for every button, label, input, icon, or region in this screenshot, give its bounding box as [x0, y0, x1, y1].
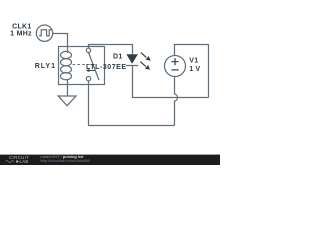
svg-text:1 MHz: 1 MHz [10, 30, 32, 37]
svg-text:http://circuitlab.com/c/bkd8t9: http://circuitlab.com/c/bkd8t9 [40, 158, 89, 163]
svg-text:V1: V1 [189, 58, 198, 65]
LED light arrow 2 [140, 62, 145, 67]
LED D1 triangle [126, 54, 137, 64]
wire CLK1 to coil corner [53, 34, 68, 54]
V1 plus sign [171, 58, 178, 65]
wire right loop up and to V1 top [175, 45, 209, 98]
svg-text:1 V: 1 V [189, 66, 200, 73]
relay armature arrow [89, 70, 96, 72]
voltage source V1 [165, 56, 186, 77]
relay switch terminal top [86, 48, 90, 52]
V1 minus sign [171, 69, 178, 71]
watermark bottom bar [0, 155, 220, 165]
svg-text:D1: D1 [113, 54, 123, 61]
wire switch top to top rail and down to LED [89, 45, 133, 55]
LED light arrow 1 [141, 53, 147, 58]
relay coil [61, 51, 72, 79]
relay RLY1 box [59, 47, 105, 85]
relay switch blade [89, 53, 100, 81]
relay switch terminal bottom [86, 76, 90, 80]
svg-text:LAB: LAB [20, 159, 29, 164]
clock source CLK1 [36, 25, 52, 41]
CircuitLab logo [6, 155, 30, 164]
relay dashed actuation line [73, 64, 95, 66]
svg-text:RLY1: RLY1 [35, 63, 56, 70]
wire coil bottom to ground [67, 79, 69, 96]
CLK1 square wave glyph [39, 30, 52, 36]
wire bottom rail [89, 81, 175, 126]
ground [58, 96, 76, 106]
LED cathode bar [126, 65, 138, 67]
wire V1 bottom with hop over [175, 77, 178, 126]
svg-text:LTL-307EE: LTL-307EE [86, 64, 127, 71]
wire LED cathode down and right [133, 66, 209, 98]
